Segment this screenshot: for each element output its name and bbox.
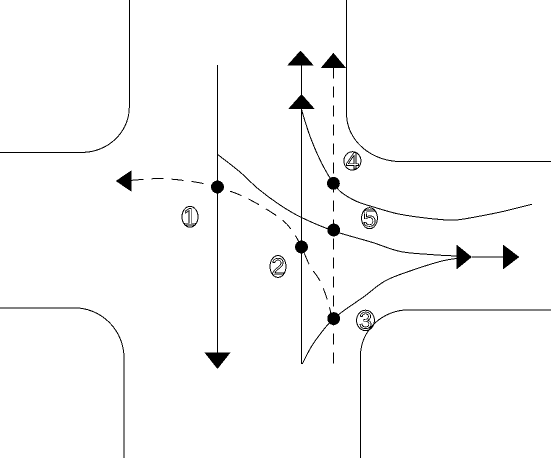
wire right-turn curve through point 4 (solid) — [302, 109, 532, 220]
right arrowhead 2 — [503, 245, 519, 270]
label circle 3 — [357, 310, 375, 330]
node dot 2 — [295, 241, 308, 254]
label circle 5 — [362, 208, 378, 229]
down arrowhead southbound through — [204, 353, 230, 370]
road edge top-right corner — [347, 0, 551, 162]
label circle 4 — [344, 152, 361, 170]
label digit 4 — [346, 153, 358, 169]
wire southbound through line — [216, 65, 218, 353]
right arrowhead 1 — [456, 245, 472, 270]
label digit 1 — [185, 209, 195, 225]
wire dashed vertical line — [332, 68, 334, 365]
up arrowhead northbound through — [287, 51, 314, 66]
wire between right arrows — [472, 256, 503, 258]
road edge bottom-right corner — [361, 310, 551, 458]
node dot 5 — [327, 224, 340, 237]
left arrowhead dashed left-turn — [116, 170, 132, 192]
up arrowhead dashed line — [321, 53, 346, 68]
up arrowhead curve 4 (second on NB line) — [288, 94, 315, 109]
wire dashed left-turn curve — [132, 179, 334, 325]
node dot 4 — [327, 177, 340, 190]
road edge bottom-left corner — [0, 308, 124, 458]
wire left-turn curve through points 5 (solid) — [217, 154, 456, 256]
node dot 3 — [327, 312, 340, 325]
label digit 3 — [360, 312, 371, 329]
wire northbound through line — [301, 66, 303, 365]
label digit 5 — [364, 210, 375, 226]
label circle 2 — [270, 256, 286, 278]
road edge top-left corner — [0, 0, 129, 153]
label circle 1 — [182, 206, 198, 227]
node dot 1 — [211, 181, 224, 194]
wire right-turn curve through point 3 (solid) — [302, 259, 456, 364]
label digit 2 — [273, 258, 284, 274]
